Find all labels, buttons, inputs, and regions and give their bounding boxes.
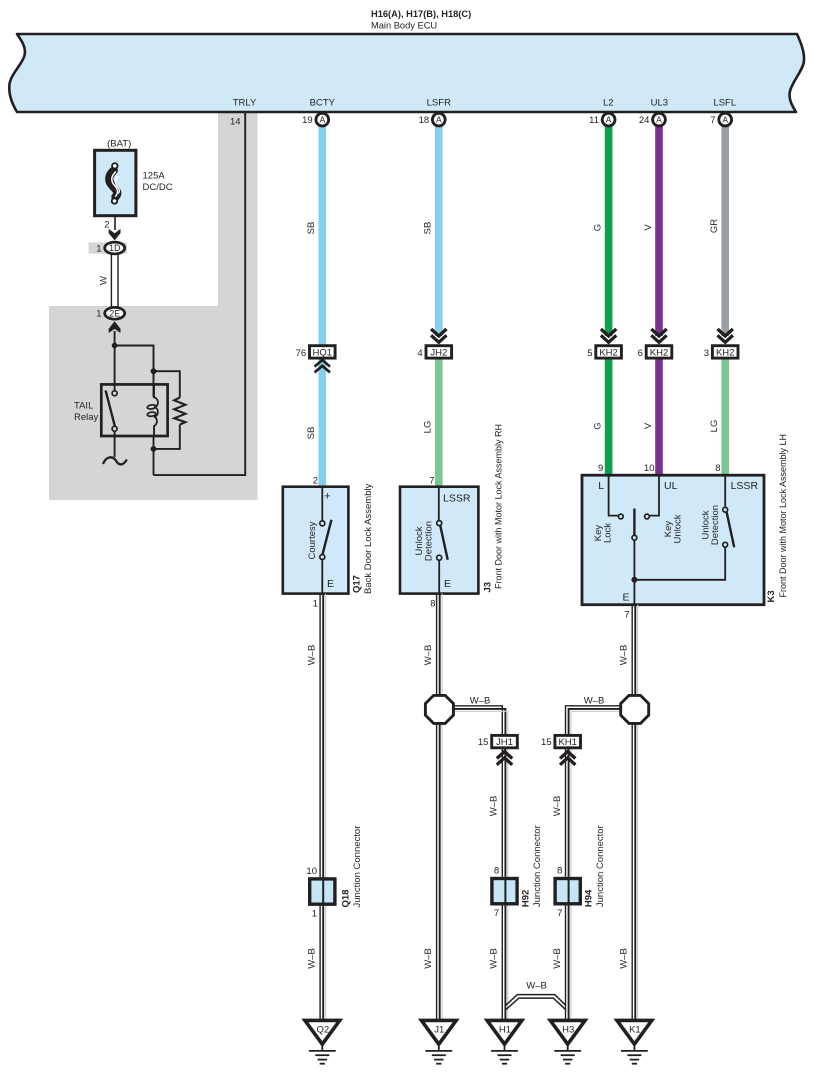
- svg-text:W–B: W–B: [423, 948, 434, 969]
- wire SB from HQ1 to Q17 pin 2: [318, 360, 326, 488]
- svg-text:W–B: W–B: [306, 645, 317, 666]
- svg-text:KH2: KH2: [650, 347, 668, 358]
- svg-text:LSSR: LSSR: [443, 493, 471, 505]
- Q18 designator label: [340, 826, 363, 908]
- svg-text:9: 9: [598, 463, 603, 474]
- svg-text:GR: GR: [709, 219, 720, 233]
- fusible link 125A DC/DC box: [95, 150, 136, 215]
- svg-text:125A: 125A: [143, 171, 166, 182]
- svg-text:19: 19: [302, 115, 313, 126]
- connector KH2 pin 3: [704, 346, 738, 360]
- J3 unlock detection label: [414, 521, 435, 561]
- wire from resistor bottom to junction: [154, 425, 180, 449]
- junction node at coil top: [151, 368, 157, 374]
- junction connector H92: [492, 866, 517, 920]
- wire W-B from junction to J1 ground: [437, 723, 443, 1020]
- K3 key lock contact: [609, 475, 624, 519]
- svg-text:Junction Connector: Junction Connector: [595, 825, 606, 907]
- ground H3: [550, 1020, 585, 1063]
- body ground squiggle: [103, 457, 127, 464]
- svg-text:24: 24: [639, 115, 650, 126]
- ECU title text: [371, 9, 471, 31]
- svg-text:Relay: Relay: [74, 412, 99, 423]
- svg-text:4: 4: [417, 348, 422, 359]
- connector 1D: [89, 242, 127, 254]
- Q17 courtesy switch: [320, 487, 332, 594]
- svg-text:KH2: KH2: [716, 347, 734, 358]
- svg-text:W–B: W–B: [489, 796, 500, 817]
- svg-text:(BAT): (BAT): [107, 139, 131, 150]
- svg-text:TRLY: TRLY: [233, 98, 257, 109]
- svg-text:Q2: Q2: [316, 1025, 329, 1036]
- K3 key unlock label: [663, 514, 684, 543]
- relay shunt resistor: [174, 398, 185, 425]
- svg-text:2E: 2E: [109, 309, 120, 319]
- svg-text:TAIL: TAIL: [74, 401, 93, 412]
- svg-text:L: L: [598, 480, 604, 492]
- svg-text:2: 2: [313, 476, 318, 487]
- wire from coil bottom to junction: [153, 436, 155, 475]
- svg-text:Courtesy: Courtesy: [307, 521, 318, 559]
- wire SB from BCTY pin 19 to HQ1: [318, 125, 326, 347]
- svg-text:7: 7: [429, 476, 434, 487]
- wire W from 1D to 2E: [111, 254, 118, 308]
- svg-text:H92: H92: [520, 890, 531, 907]
- K3 unlock detection label: [701, 505, 722, 545]
- svg-text:JH2: JH2: [430, 347, 447, 358]
- svg-text:W–B: W–B: [552, 948, 563, 969]
- ground Q2: [305, 1020, 340, 1063]
- svg-text:7: 7: [557, 908, 562, 919]
- wire SB from LSFR pin 18 to JH2: [435, 125, 443, 336]
- svg-text:Main Body ECU: Main Body ECU: [371, 21, 437, 31]
- wire LG from KH2 to K3 pin 8: [721, 359, 729, 477]
- connector 2E: [96, 307, 124, 319]
- svg-text:7: 7: [710, 115, 715, 126]
- svg-text:J3: J3: [482, 582, 493, 593]
- wire GR from LSFL pin 7 to KH2: [721, 125, 729, 336]
- svg-text:JH1: JH1: [496, 737, 513, 748]
- svg-text:10: 10: [306, 866, 317, 877]
- wire W-B from H94 to H3 ground: [566, 905, 572, 1020]
- Q17 designator label: [352, 483, 375, 594]
- svg-text:1: 1: [96, 309, 101, 320]
- ECU H16/H17/H18 Main Body ECU band: [9, 34, 804, 112]
- svg-text:J1: J1: [434, 1025, 444, 1036]
- svg-text:W: W: [98, 276, 109, 285]
- ground K1: [617, 1020, 652, 1063]
- svg-text:A: A: [656, 115, 662, 125]
- svg-text:Unlock: Unlock: [673, 514, 684, 543]
- svg-text:A: A: [722, 115, 728, 125]
- wire V from UL3 pin 24 to KH2: [655, 125, 663, 336]
- svg-text:W–B: W–B: [489, 948, 500, 969]
- svg-text:W–B: W–B: [619, 645, 630, 666]
- svg-text:A: A: [319, 115, 325, 125]
- K3 key lock label: [593, 523, 614, 543]
- wire branch to resistor: [154, 371, 180, 397]
- shaded region behind TRLY wire: [218, 112, 258, 306]
- svg-text:LG: LG: [423, 421, 434, 434]
- wire W-B from JH1 to H92: [502, 749, 508, 877]
- wire branch to relay coil: [115, 346, 154, 398]
- svg-text:Back Door Lock Assembly: Back Door Lock Assembly: [363, 483, 374, 594]
- svg-text:1: 1: [313, 599, 318, 610]
- wire from fusible link to connector 1D: [114, 216, 116, 230]
- svg-text:Detection: Detection: [423, 521, 434, 561]
- svg-text:7: 7: [624, 610, 629, 621]
- svg-text:H3: H3: [562, 1025, 574, 1036]
- svg-text:LSFL: LSFL: [713, 98, 736, 109]
- svg-text:UL3: UL3: [651, 98, 668, 109]
- connector HQ1 pin 76: [296, 346, 335, 360]
- svg-text:KH1: KH1: [558, 737, 576, 748]
- wire LG from JH2 to J3 pin 7: [435, 359, 443, 488]
- svg-text:K1: K1: [629, 1025, 641, 1036]
- svg-text:Junction Connector: Junction Connector: [532, 825, 543, 907]
- wire G from KH2 to K3 pin 9: [605, 359, 613, 477]
- svg-text:2: 2: [104, 220, 109, 231]
- svg-text:W–B: W–B: [470, 696, 491, 707]
- svg-text:W–B: W–B: [526, 981, 547, 992]
- K3 unlock detection switch: [634, 475, 734, 580]
- svg-text:10: 10: [644, 463, 655, 474]
- J3 unlock detection switch: [437, 487, 448, 594]
- svg-text:Q18: Q18: [340, 890, 351, 908]
- svg-text:W–B: W–B: [423, 645, 434, 666]
- wire W-B from J3 to junction: [437, 594, 443, 696]
- svg-text:1D: 1D: [109, 243, 120, 253]
- fusible link symbol: [109, 163, 119, 204]
- K3 key unlock contact: [645, 475, 659, 519]
- wire W-B link between H1 and H3 grounds: [506, 995, 566, 1010]
- chevron arrows below JH1: [497, 752, 512, 759]
- pin 11 connector A at L2: [589, 113, 615, 126]
- svg-text:V: V: [643, 422, 654, 429]
- junction node (octagon) on J3 ground line: [425, 695, 453, 723]
- svg-text:KH2: KH2: [599, 347, 617, 358]
- svg-text:15: 15: [478, 737, 489, 748]
- H94 designator label: [584, 825, 607, 907]
- svg-text:Junction Connector: Junction Connector: [352, 826, 363, 908]
- svg-text:LSSR: LSSR: [731, 480, 759, 492]
- svg-text:LG: LG: [709, 420, 720, 433]
- connector JH2 pin 4: [417, 346, 451, 360]
- svg-text:G: G: [593, 224, 604, 231]
- svg-text:W–B: W–B: [584, 696, 605, 707]
- back door lock assembly Q17 box: [283, 487, 349, 594]
- chevron arrows above KH2 (V wire): [651, 329, 666, 336]
- wire V from KH2 to K3 pin 10: [655, 359, 663, 477]
- K3 junction node: [631, 577, 637, 583]
- svg-text:Lock: Lock: [603, 523, 614, 543]
- svg-text:14: 14: [230, 117, 241, 128]
- svg-text:DC/DC: DC/DC: [143, 182, 173, 193]
- connector KH2 pin 6: [638, 346, 672, 360]
- pin 7 connector A at LSFL: [710, 113, 731, 126]
- wire W-B from KH1 to H94: [566, 749, 572, 877]
- wire W-B from junction to K1 ground: [632, 723, 638, 1020]
- front door with motor lock assembly RH J3 box: [400, 487, 478, 594]
- fusible link value label 125A DC/DC: [143, 171, 173, 194]
- J3 designator label: [482, 424, 503, 593]
- svg-text:18: 18: [419, 115, 430, 126]
- svg-text:8: 8: [430, 599, 435, 610]
- svg-text:Detection: Detection: [710, 505, 721, 545]
- chevron arrows above KH2 (G wire): [601, 329, 616, 336]
- ground H1: [487, 1020, 522, 1063]
- svg-text:L2: L2: [603, 98, 614, 109]
- svg-text:76: 76: [296, 348, 307, 359]
- wire W-B from Q17 to Q18: [320, 594, 326, 878]
- wire from 2E to TAIL relay: [114, 331, 116, 391]
- H92 designator label: [520, 825, 542, 907]
- svg-text:8: 8: [494, 866, 499, 877]
- svg-text:A: A: [606, 115, 612, 125]
- wire from relay switch to body ground squiggle: [114, 431, 116, 457]
- svg-text:E: E: [327, 578, 334, 590]
- junction node (octagon) on K3 ground line: [621, 695, 649, 723]
- K3 key switch pole: [632, 509, 637, 605]
- svg-text:W–B: W–B: [552, 796, 563, 817]
- svg-text:3: 3: [704, 348, 709, 359]
- TAIL relay switch contact: [106, 391, 118, 432]
- svg-text:E: E: [622, 592, 629, 604]
- wire G from L2 pin 11 to KH2: [605, 125, 613, 336]
- svg-text:V: V: [643, 224, 654, 231]
- wire W-B from Q18 to Q2 ground: [320, 906, 326, 1021]
- svg-text:Front Door with Motor Lock Ass: Front Door with Motor Lock Assembly LH: [778, 434, 788, 598]
- TRLY wire from pin 14 to relay circuit: [154, 112, 246, 475]
- connector JH1 pin 15: [478, 735, 517, 748]
- svg-text:W–B: W–B: [619, 948, 630, 969]
- svg-text:H1: H1: [499, 1025, 511, 1036]
- svg-text:G: G: [593, 422, 604, 429]
- ECU pin name labels: [233, 98, 736, 109]
- junction connector H94: [555, 866, 580, 920]
- arrow into connector 1D: [109, 229, 121, 241]
- svg-text:W–B: W–B: [306, 948, 317, 969]
- svg-text:SB: SB: [423, 222, 434, 235]
- svg-text:SB: SB: [306, 427, 317, 440]
- svg-text:15: 15: [541, 737, 552, 748]
- svg-text:Q17: Q17: [352, 575, 363, 593]
- svg-text:HQ1: HQ1: [313, 347, 333, 358]
- svg-text:7: 7: [494, 908, 499, 919]
- svg-text:11: 11: [589, 115, 599, 126]
- svg-text:K3: K3: [766, 590, 777, 602]
- pin 19 connector A at BCTY: [302, 113, 329, 126]
- wire W-B from H92 to H1 ground: [502, 905, 508, 1020]
- TAIL relay label: [74, 401, 99, 424]
- TAIL relay box: [101, 384, 167, 436]
- svg-text:H16(A), H17(B), H18(C): H16(A), H17(B), H18(C): [371, 9, 471, 19]
- svg-text:1: 1: [312, 909, 317, 920]
- svg-text:5: 5: [587, 348, 592, 359]
- junction node above TAIL relay: [112, 343, 118, 349]
- wire W-B from K3 to junction: [632, 605, 638, 696]
- chevron arrows above JH2: [431, 329, 446, 336]
- chevron arrows below HQ1: [315, 360, 330, 367]
- shaded region around TAIL relay circuit: [49, 306, 258, 500]
- svg-text:8: 8: [557, 866, 562, 877]
- svg-text:E: E: [444, 578, 451, 590]
- svg-text:UL: UL: [664, 480, 678, 492]
- connector KH1 pin 15: [541, 735, 580, 748]
- svg-text:8: 8: [715, 463, 720, 474]
- wire W-B from left junction to JH1: [452, 706, 508, 735]
- svg-text:6: 6: [638, 348, 643, 359]
- front door with motor lock assembly LH K3 box: [582, 475, 764, 605]
- pin 24 connector A at UL3: [639, 113, 666, 126]
- junction node at coil bottom: [151, 446, 157, 452]
- junction connector Q18: [306, 866, 334, 920]
- svg-text:+: +: [324, 491, 330, 503]
- svg-text:A: A: [436, 115, 442, 125]
- svg-text:1: 1: [96, 243, 101, 254]
- svg-text:LSFR: LSFR: [427, 98, 451, 109]
- TAIL relay coil: [147, 384, 158, 436]
- svg-text:BCTY: BCTY: [310, 98, 336, 109]
- connector KH2 pin 5: [587, 346, 621, 360]
- ground J1: [421, 1020, 456, 1063]
- wire W-B from right junction to KH1: [566, 706, 623, 735]
- svg-text:H94: H94: [584, 889, 595, 907]
- pin 18 connector A at LSFR: [419, 113, 446, 126]
- K3 designator label: [766, 434, 788, 603]
- chevron arrows below KH1: [560, 752, 575, 759]
- svg-text:SB: SB: [306, 222, 317, 235]
- svg-text:Front Door with Motor Lock Ass: Front Door with Motor Lock Assembly RH: [494, 424, 504, 589]
- arrow out of connector 2E: [109, 321, 121, 333]
- chevron arrows above KH2 (GR wire): [718, 329, 733, 336]
